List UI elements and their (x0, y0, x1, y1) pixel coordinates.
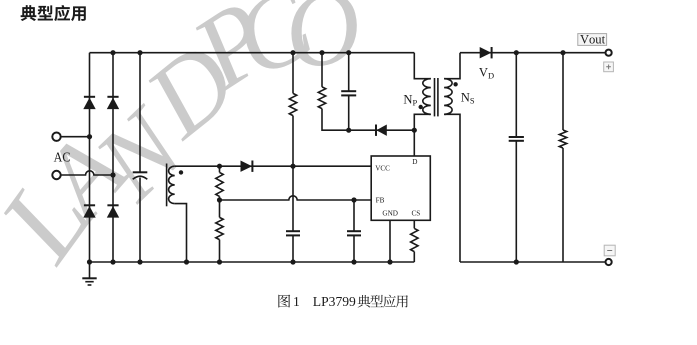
transformer T1 primary (414, 53, 431, 79)
wire GND pin (389, 220, 391, 262)
node out rail / C5 (514, 50, 519, 55)
capacitor C4 clamp (348, 53, 350, 91)
transformer T1 aux winding (166, 164, 168, 207)
node bottom rail / aux winding (184, 259, 189, 264)
node out rail / R6 (560, 50, 565, 55)
IC U1 LP3799 (371, 156, 430, 220)
wire top rail (90, 52, 415, 54)
transformer T1 secondary (444, 79, 452, 115)
terminal Vout- (606, 259, 612, 265)
resistor R2 divider lower (219, 200, 221, 217)
svg-text:V: V (580, 33, 589, 47)
node bottom rail / C2 (351, 259, 356, 264)
capacitor C5 output (515, 53, 517, 137)
diode D1 bridge upper-left (84, 96, 95, 98)
diode D3 bridge lower-left (84, 204, 95, 206)
node FB line / C2 (351, 197, 356, 202)
wire FB line with hop (220, 196, 372, 200)
label minus box (604, 245, 615, 256)
resistor R5 CS sense (413, 220, 415, 228)
node top rail / bulk cap (137, 50, 142, 55)
capacitor C1 bulk (polarized) (139, 53, 141, 173)
wire left bridge column (89, 53, 91, 262)
label title 典型应用 (21, 5, 37, 21)
wire VCC line (175, 165, 371, 167)
terminal AC upper (52, 133, 60, 141)
ground (89, 262, 91, 278)
wire secondary bottom rail (460, 261, 605, 263)
capacitor C2 FB (353, 200, 355, 231)
wire C3 to bottom rail (292, 235, 294, 262)
node drain / clamp (412, 128, 417, 133)
wire right bridge column (112, 53, 114, 262)
wire secondary top rail (460, 52, 605, 54)
svg-text:GND: GND (382, 210, 398, 218)
svg-text:FB: FB (376, 197, 385, 205)
svg-text:out: out (589, 33, 606, 47)
node secondary phase dot (453, 82, 457, 86)
node top rail / R3 (290, 50, 295, 55)
capacitor C3 VCC (292, 166, 294, 231)
diode D5 vcc rectifier (241, 161, 253, 172)
wire aux bottom (175, 204, 187, 262)
svg-text:D: D (412, 158, 417, 166)
node bottom rail / bulk cap (137, 259, 142, 264)
node top rail / R4 (319, 50, 324, 55)
terminal Vout+ (606, 50, 612, 56)
transformer core (434, 78, 436, 116)
node bottom rail / ground (87, 259, 92, 264)
node VCC line / R3 (290, 164, 295, 169)
node bottom rail / GND pin (387, 259, 392, 264)
svg-text:VCC: VCC (375, 165, 390, 173)
diode D4 bridge lower-right (107, 204, 118, 206)
node bottom rail / right bridge column (110, 259, 115, 264)
wire C2 to bottom rail (353, 235, 355, 262)
node VCC line / divider top (217, 164, 222, 169)
diode D2 bridge upper-right (107, 96, 118, 98)
terminal AC lower (52, 171, 60, 179)
node bottom rail / divider (217, 259, 222, 264)
node aux phase dot (179, 170, 183, 174)
wire AC lower with hop over left column (61, 171, 113, 175)
svg-text:AC: AC (54, 151, 71, 166)
svg-text:1: 1 (293, 294, 300, 309)
node out bottom rail / C5 (514, 259, 519, 264)
label plus box (604, 62, 614, 72)
diode VD output rectifier (480, 47, 492, 58)
wire clamp line (349, 129, 415, 131)
node FB divider midpoint (217, 197, 222, 202)
node AC upper / bridge (87, 134, 92, 139)
wire bottom rail primary (90, 261, 415, 263)
resistor R4 clamp (321, 53, 323, 87)
node top rail / C4 (346, 50, 351, 55)
resistor R3 VCC feed (292, 53, 294, 94)
label caption 图1 LP3799 典型应用 (278, 295, 290, 308)
wire AC upper to bridge (61, 136, 90, 138)
node top rail / right bridge column (110, 50, 115, 55)
node bottom rail / C3 (290, 259, 295, 264)
resistor R6 output load (562, 53, 564, 130)
svg-text:LP3799: LP3799 (313, 294, 356, 309)
label Vout box (578, 34, 607, 46)
resistor R1 divider upper (216, 172, 223, 196)
diode D6 clamp (376, 125, 387, 136)
node clamp line / C4 (346, 128, 351, 133)
node primary phase dot (419, 105, 423, 109)
svg-text:CS: CS (412, 209, 421, 217)
